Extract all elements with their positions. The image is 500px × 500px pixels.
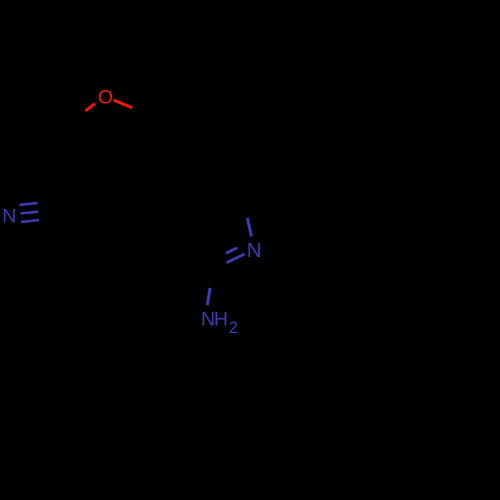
bond C-NH2 (blue half) (207, 288, 210, 305)
bond N-C up (blue half) (247, 218, 251, 237)
svg-text:O: O (98, 87, 113, 109)
double bond C=N inner line (blue half) (226, 248, 237, 253)
nitrile triple bond line 3 (blue half) (21, 220, 39, 222)
svg-text:2: 2 (229, 319, 238, 337)
bond O-C left half (red) (85, 104, 95, 111)
svg-text:N: N (247, 239, 262, 262)
bond O-C right half (red) (114, 100, 133, 108)
svg-text:H: H (214, 309, 228, 331)
double bond C=N outer line (blue half) (227, 254, 245, 263)
nitrile triple bond line 1 (blue half) (20, 203, 38, 205)
nitrile triple bond line 2 (blue half) (21, 212, 39, 214)
svg-text:N: N (2, 206, 16, 228)
